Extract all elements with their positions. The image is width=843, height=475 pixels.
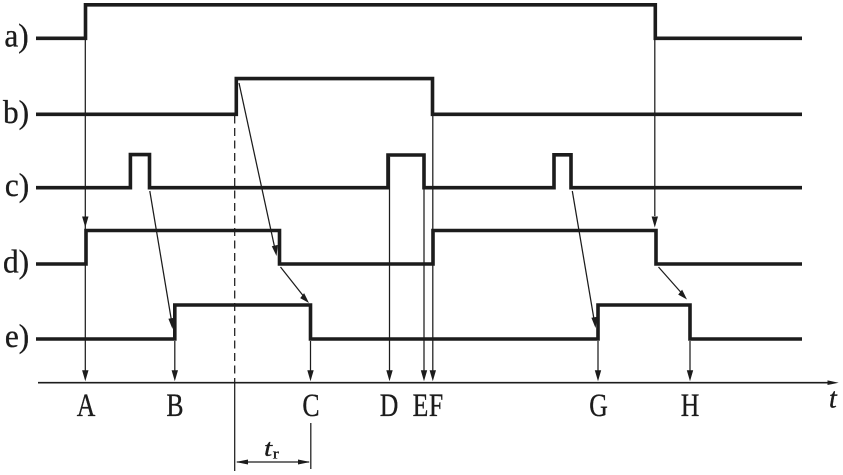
time axis <box>38 382 830 384</box>
C extension line below axis <box>310 423 312 469</box>
svg-text:t: t <box>829 384 838 415</box>
svg-text:G: G <box>589 388 608 424</box>
arrow A vertical line <box>84 40 86 378</box>
arrowhead A mid (to d top) <box>82 217 88 228</box>
svg-text:c): c) <box>5 166 29 203</box>
svg-text:b): b) <box>3 93 29 130</box>
axis arrowhead right <box>828 380 839 385</box>
tr dimension line <box>237 461 309 463</box>
waveform c <box>36 155 802 188</box>
slant arrow b rise to d1 fall <box>239 83 275 249</box>
svg-text:C: C <box>302 388 319 424</box>
svg-text:a): a) <box>4 17 28 54</box>
tr dim arrowhead right <box>298 460 310 465</box>
arrowhead H at axis <box>687 370 693 381</box>
slant arrow c1 fall to e1 rise <box>150 191 172 322</box>
slant arrow d1 fall to e1 fall <box>281 267 304 296</box>
slant arrow c3 fall to e2 rise <box>572 191 594 321</box>
slant arrow d2 fall to e2 fall <box>659 267 682 293</box>
svg-text:D: D <box>380 388 399 424</box>
arrowhead D at axis <box>386 370 392 381</box>
arrowhead E at axis <box>421 370 427 381</box>
svg-text:tr: tr <box>264 434 279 462</box>
svg-text:E: E <box>413 388 429 424</box>
arrow E vertical line <box>423 157 425 378</box>
arrowhead C at axis <box>307 370 313 381</box>
arrowhead a-fall to d top <box>652 217 658 228</box>
arrow G vertical line <box>597 341 599 378</box>
svg-text:B: B <box>166 388 183 424</box>
arrow C vertical line <box>310 341 312 378</box>
svg-text:d): d) <box>3 243 29 280</box>
arrowhead slant3 <box>300 293 309 303</box>
waveform a <box>36 5 802 39</box>
tr dim arrowhead left <box>236 460 248 465</box>
arrow D vertical line <box>389 157 391 378</box>
svg-text:A: A <box>77 388 96 424</box>
arrow F vertical line <box>432 116 434 378</box>
arrowhead A at axis <box>82 370 88 381</box>
arrowhead F at axis <box>430 370 436 381</box>
svg-text:H: H <box>681 388 700 424</box>
arrowhead B at axis <box>172 370 178 381</box>
waveform d <box>36 231 802 265</box>
arrow B vertical line <box>174 341 176 378</box>
dashed reference line at b rising edge <box>234 116 236 382</box>
svg-text:e): e) <box>5 317 29 354</box>
arrowhead G at axis <box>595 370 601 381</box>
arrowhead slant1 <box>168 318 174 329</box>
waveform e <box>36 305 802 339</box>
arrow at a falling edge to d <box>654 40 656 216</box>
arrowhead slant4 <box>591 317 597 328</box>
dimension extension line below axis at b rising edge <box>234 381 236 471</box>
svg-text:F: F <box>429 388 443 424</box>
arrowhead slant2 <box>272 245 278 256</box>
arrow H vertical line <box>689 341 691 378</box>
arrowhead slant5 <box>678 290 687 300</box>
waveform b <box>36 79 802 115</box>
